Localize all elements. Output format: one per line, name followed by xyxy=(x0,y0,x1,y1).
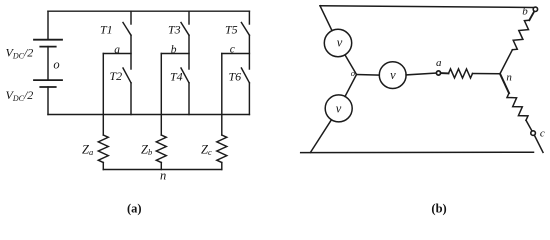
source vc circle xyxy=(325,95,352,122)
wire node a to resistor xyxy=(441,72,449,74)
svg-text:b: b xyxy=(522,5,528,17)
node a terminal circle xyxy=(436,71,440,75)
svg-text:T5: T5 xyxy=(225,23,238,37)
wire center o to vc xyxy=(345,75,357,97)
svg-text:o: o xyxy=(351,68,355,78)
svg-text:v: v xyxy=(336,102,342,116)
svg-text:a: a xyxy=(436,57,442,69)
wire leg c upper xyxy=(248,11,250,24)
wire top line to source vb xyxy=(320,6,332,31)
resistor Za xyxy=(98,135,108,163)
wire neutral n connector xyxy=(103,169,222,171)
wire phase-a tap horizontal xyxy=(103,53,131,55)
svg-text:T4: T4 xyxy=(170,69,183,83)
svg-text:T1: T1 xyxy=(100,23,113,37)
wire left rail upper segment xyxy=(47,11,49,40)
source vb circle xyxy=(324,29,351,56)
svg-text:T6: T6 xyxy=(229,69,242,83)
wire resistor to node c xyxy=(526,120,532,130)
svg-text:T2: T2 xyxy=(110,69,123,83)
svg-text:Za: Za xyxy=(82,142,93,157)
wire leg c middle xyxy=(248,35,250,69)
svg-text:n: n xyxy=(160,168,166,182)
resistor phase c xyxy=(507,93,528,120)
wire phase-c tap horizontal xyxy=(222,53,250,55)
wire leg b middle xyxy=(188,35,190,69)
battery VDC/2 lower (plates) xyxy=(34,80,62,87)
svg-text:T3: T3 xyxy=(168,23,181,37)
wire leg a middle xyxy=(130,35,132,69)
svg-text:v: v xyxy=(390,68,396,82)
wire Zc bottom stub xyxy=(221,163,223,170)
wire resistor to node b xyxy=(529,12,534,20)
switch T6 blade xyxy=(241,68,249,83)
wire leg b lower xyxy=(188,83,190,115)
wire phase-b tap vertical xyxy=(160,54,162,136)
svg-text:a: a xyxy=(114,44,120,56)
wire bottom DC rail xyxy=(48,114,249,116)
svg-text:v: v xyxy=(337,36,343,50)
wire vb to center o xyxy=(345,55,357,75)
svg-text:c: c xyxy=(540,128,545,140)
wire Zb bottom stub xyxy=(160,163,162,170)
svg-text:Zb: Zb xyxy=(141,142,152,157)
svg-text:b: b xyxy=(171,44,177,56)
node c terminal circle xyxy=(531,131,536,136)
wire vc to bottom line xyxy=(310,120,331,153)
wire left rail lower segment xyxy=(47,87,49,115)
wire va to node a xyxy=(406,73,436,75)
svg-text:c: c xyxy=(230,44,235,56)
wire leg a upper xyxy=(130,11,132,24)
resistor phase b xyxy=(512,20,529,50)
switch T2 blade xyxy=(123,68,131,83)
wire node n down branch xyxy=(500,74,509,93)
wire leg c lower xyxy=(248,83,250,115)
source va circle xyxy=(379,62,406,89)
wire phase-c tap vertical xyxy=(221,54,223,136)
wire leg b upper xyxy=(188,11,190,24)
wire resistor to node n xyxy=(473,73,501,75)
wire leg a lower xyxy=(130,83,132,115)
switch T5 blade xyxy=(241,23,249,36)
resistor Zc xyxy=(217,135,227,163)
battery VDC/2 upper (plates) xyxy=(34,40,62,47)
wire phase-b tap horizontal xyxy=(161,53,189,55)
svg-text:Zc: Zc xyxy=(201,142,212,157)
wire between batteries xyxy=(47,47,49,81)
resistor Zb xyxy=(156,135,166,163)
switch T1 blade xyxy=(123,23,131,36)
wire node n up branch xyxy=(500,50,512,74)
wire node c lower stub xyxy=(535,135,544,152)
wire top line to b xyxy=(320,6,533,8)
node b terminal circle xyxy=(533,7,537,11)
wire top DC rail xyxy=(48,10,249,12)
wire center o to va xyxy=(357,74,380,77)
svg-text:(a): (a) xyxy=(127,202,142,216)
wire bottom line xyxy=(301,151,534,153)
svg-text:VDC/2: VDC/2 xyxy=(6,46,34,61)
svg-text:VDC/2: VDC/2 xyxy=(6,88,34,103)
switch T4 blade xyxy=(181,68,189,83)
wire phase-a tap vertical xyxy=(102,54,104,136)
resistor phase a xyxy=(449,69,473,78)
svg-text:(b): (b) xyxy=(431,202,446,216)
wire Za bottom stub xyxy=(102,163,104,170)
svg-text:o: o xyxy=(53,57,59,71)
switch T3 blade xyxy=(181,23,189,36)
svg-text:n: n xyxy=(506,71,512,83)
